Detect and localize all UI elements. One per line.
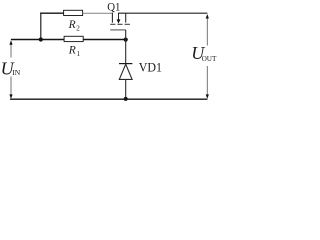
svg-text:2: 2: [76, 24, 80, 32]
junction dot at riser and input line: [39, 37, 43, 41]
resistor R1: [64, 36, 83, 41]
svg-text:IN: IN: [12, 68, 21, 77]
diode VD1 triangle: [119, 64, 132, 79]
svg-text:Q1: Q1: [107, 0, 120, 13]
transistor Q1 source channel dash: [125, 23, 130, 25]
transistor Q1 source lead: [125, 13, 127, 22]
svg-text:VD1: VD1: [139, 59, 162, 74]
wire: gray wire from R2 right to Q1 drain lead: [83, 12, 113, 14]
diode VD1 cathode bar: [119, 63, 132, 65]
transistor Q1 drain lead: [111, 13, 113, 23]
transistor Q1 middle channel dash: [117, 23, 122, 25]
wire: riser from input line up to top wire: [40, 13, 42, 40]
svg-text:1: 1: [77, 50, 81, 58]
svg-text:R: R: [68, 45, 76, 57]
resistor R2: [64, 10, 83, 15]
junction dot at VD1 and bottom rail: [124, 97, 128, 101]
transistor Q1 gate lead down to node A: [125, 30, 127, 40]
wire: main input line from U_IN arrow to node A: [11, 39, 126, 41]
transistor Q1 gate bar: [110, 29, 126, 31]
svg-text:R: R: [68, 19, 76, 31]
node A dot (R1 / Q1 gate / VD1): [124, 38, 128, 42]
svg-text:OUT: OUT: [202, 55, 217, 63]
U_OUT voltage arrow (double headed): [206, 17, 208, 96]
U_IN voltage arrow (double headed): [10, 43, 12, 96]
wire: bottom rail: [10, 98, 207, 100]
wire: output wire from Q1 source to U_OUT arrow: [118, 12, 207, 14]
diode VD1 top lead from node A: [125, 40, 127, 63]
transistor Q1 drain channel dash: [110, 23, 115, 25]
diode VD1 bottom lead to ground rail: [125, 79, 127, 99]
wire: top wire from riser corner to R2 left: [40, 12, 64, 14]
transistor Q1 body arrow (points down to channel): [118, 13, 120, 20]
